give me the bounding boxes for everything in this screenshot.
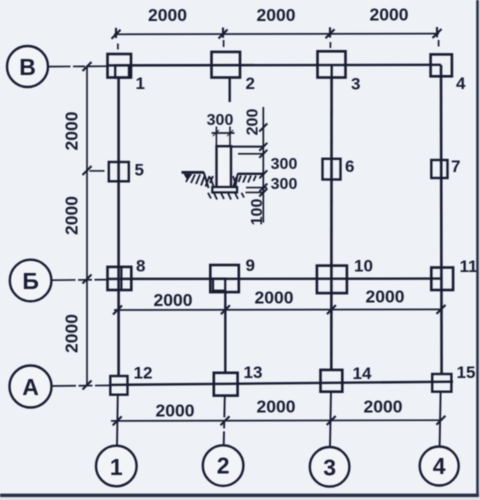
svg-text:6: 6 xyxy=(345,157,354,176)
svg-text:А: А xyxy=(22,374,39,400)
svg-text:2000: 2000 xyxy=(156,401,195,421)
svg-text:2: 2 xyxy=(246,74,255,93)
svg-text:2000: 2000 xyxy=(62,196,82,235)
svg-text:300: 300 xyxy=(271,176,298,193)
svg-text:15: 15 xyxy=(457,363,476,382)
svg-text:200: 200 xyxy=(245,109,262,136)
svg-text:2000: 2000 xyxy=(257,5,296,25)
svg-text:300: 300 xyxy=(207,112,234,129)
svg-text:Б: Б xyxy=(22,268,39,294)
svg-text:2000: 2000 xyxy=(257,397,296,417)
svg-text:14: 14 xyxy=(353,364,372,383)
svg-text:2: 2 xyxy=(217,453,230,479)
svg-text:В: В xyxy=(19,54,36,80)
svg-text:2000: 2000 xyxy=(366,287,405,307)
svg-text:2000: 2000 xyxy=(62,314,82,353)
svg-text:11: 11 xyxy=(460,257,478,276)
svg-text:3: 3 xyxy=(351,75,360,94)
svg-text:12: 12 xyxy=(134,364,153,383)
svg-text:10: 10 xyxy=(354,257,373,276)
svg-text:13: 13 xyxy=(244,363,263,382)
svg-text:3: 3 xyxy=(323,455,336,481)
svg-text:100: 100 xyxy=(249,199,266,226)
svg-text:7: 7 xyxy=(451,157,460,176)
svg-text:5: 5 xyxy=(135,161,144,180)
svg-text:8: 8 xyxy=(136,257,145,276)
svg-text:2000: 2000 xyxy=(255,288,294,308)
svg-text:4: 4 xyxy=(433,453,446,479)
svg-text:2000: 2000 xyxy=(148,5,187,25)
svg-text:2000: 2000 xyxy=(62,111,82,150)
svg-text:4: 4 xyxy=(456,74,466,93)
svg-text:9: 9 xyxy=(246,256,255,275)
svg-text:300: 300 xyxy=(271,156,298,173)
svg-text:1: 1 xyxy=(110,454,123,480)
svg-text:2000: 2000 xyxy=(370,5,409,25)
svg-text:2000: 2000 xyxy=(364,397,403,417)
svg-text:1: 1 xyxy=(136,74,145,93)
svg-text:2000: 2000 xyxy=(154,290,193,310)
